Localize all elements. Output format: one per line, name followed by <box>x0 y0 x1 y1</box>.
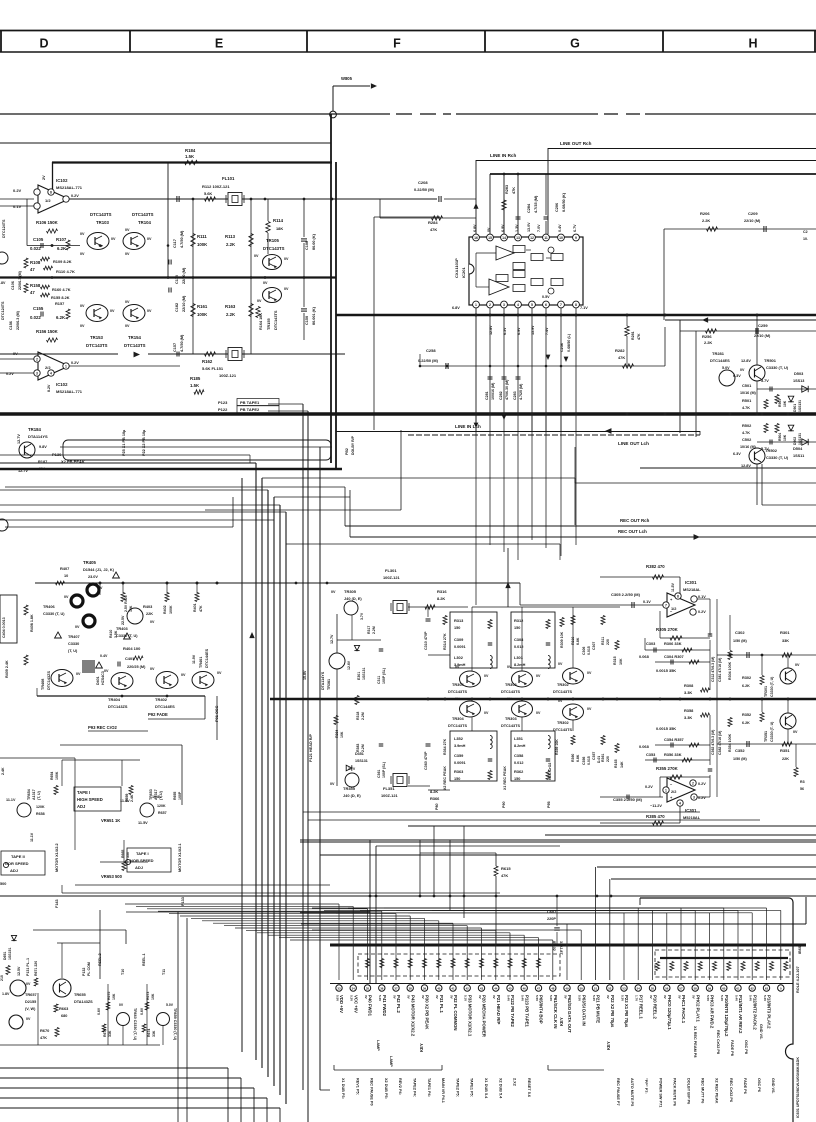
transistor TR401 <box>192 648 222 688</box>
svg-text:0V: 0V <box>536 711 541 715</box>
svg-text:T10: T10 <box>121 969 125 975</box>
resistor R384 <box>334 716 344 739</box>
svg-text:DTC143TS: DTC143TS <box>132 212 154 217</box>
svg-text:C307: C307 <box>592 642 596 650</box>
wire P92 FADE <box>148 696 205 719</box>
resistor R402 <box>163 593 173 615</box>
svg-text:R318: R318 <box>356 712 360 720</box>
svg-text:R383: R383 <box>356 744 360 752</box>
svg-text:TR302: TR302 <box>557 720 570 725</box>
capacitor C502 <box>740 437 816 451</box>
svg-text:W805: W805 <box>341 76 353 81</box>
transistor TR406 <box>43 595 83 616</box>
svg-text:C352: C352 <box>735 748 745 753</box>
svg-text:C282: C282 <box>499 391 503 400</box>
svg-text:R163: R163 <box>225 304 236 309</box>
svg-text:0V: 0V <box>125 228 130 232</box>
transistor TR104 <box>123 212 154 256</box>
capacitor C118 <box>169 260 186 285</box>
svg-text:C360 470P: C360 470P <box>424 751 428 770</box>
svg-text:REC OUT Rch: REC OUT Rch <box>620 518 650 523</box>
svg-text:C283: C283 <box>513 391 517 400</box>
svg-text:0V: 0V <box>125 324 130 328</box>
capacitor C307 <box>592 642 596 650</box>
svg-text:1.8V: 1.8V <box>2 992 10 996</box>
svg-text:1/50 (M): 1/50 (M) <box>733 757 748 761</box>
svg-text:REC PAUSE P0: REC PAUSE P0 <box>370 1078 374 1106</box>
svg-text:10.: 10. <box>803 237 808 241</box>
wire P91 OSC <box>214 696 219 740</box>
svg-text:47K: 47K <box>501 873 508 878</box>
svg-text:C150: C150 <box>305 316 309 325</box>
svg-text:IC102: IC102 <box>56 382 68 387</box>
svg-text:5.6K: 5.6K <box>204 191 212 196</box>
svg-text:R111: R111 <box>197 234 207 239</box>
svg-text:IC301: IC301 <box>685 580 697 585</box>
wire heavy vertical bus x331 <box>331 114 336 469</box>
svg-text:DOLBY B/P P6: DOLBY B/P P6 <box>687 1078 691 1104</box>
svg-text:2.2K: 2.2K <box>226 312 236 317</box>
transistor TR353 <box>501 697 541 728</box>
wire LINE IN Lch <box>336 424 700 434</box>
svg-text:0.4V: 0.4V <box>558 224 562 232</box>
transistor TR655 <box>53 979 93 1004</box>
svg-text:DTC143TS: DTC143TS <box>273 310 278 330</box>
svg-text:3.7V: 3.7V <box>360 612 364 620</box>
svg-text:1.5K: 1.5K <box>190 383 200 388</box>
svg-text:10K: 10K <box>783 434 787 441</box>
resistor R155 <box>41 293 70 300</box>
connector pin row line <box>330 983 793 985</box>
svg-text:P10/INT0 120μ/70μ.2: P10/INT0 120μ/70μ.2 <box>724 995 729 1037</box>
svg-text:11.5V: 11.5V <box>671 582 675 592</box>
svg-text:D351: D351 <box>355 752 364 756</box>
transistor TR653 <box>140 789 182 817</box>
svg-text:R366: R366 <box>430 796 440 801</box>
svg-text:REC OUT Lch: REC OUT Lch <box>618 529 647 534</box>
svg-text:R409 2.4K: R409 2.4K <box>5 660 9 678</box>
wire LINE IN Rch <box>473 153 816 234</box>
transistor TR184 <box>17 427 85 473</box>
label 0.0015 35K <box>656 668 676 673</box>
wire main top bus y114 dashed <box>0 113 816 115</box>
transistor TR501 <box>733 315 789 383</box>
wire right block frame <box>575 447 816 505</box>
svg-text:45: 45 <box>508 986 512 990</box>
svg-text:C3330 (T, U): C3330 (T, U) <box>770 676 774 697</box>
svg-text:DTC143TS: DTC143TS <box>90 212 112 217</box>
label T10 <box>121 969 125 975</box>
svg-text:0V: 0V <box>263 281 268 285</box>
svg-text:0V: 0V <box>284 287 289 291</box>
wire long verticals mid-left <box>303 447 760 1090</box>
svg-text:J40 (D, E): J40 (D, E) <box>344 596 362 601</box>
svg-text:500: 500 <box>0 882 6 886</box>
svg-text:R112 100Z-121: R112 100Z-121 <box>202 184 230 189</box>
svg-text:2.2M: 2.2M <box>361 744 365 752</box>
svg-text:5.5V: 5.5V <box>706 995 710 1001</box>
svg-text:10K: 10K <box>619 658 623 665</box>
svg-text:2.4K: 2.4K <box>130 794 134 802</box>
IC201 pin voltage labels <box>452 222 588 352</box>
svg-text:0V: 0V <box>435 995 439 999</box>
capacitor C106 <box>11 270 22 290</box>
label X2 REC PEAK <box>443 766 447 790</box>
svg-text:35: 35 <box>366 986 370 990</box>
svg-text:C259: C259 <box>758 323 768 328</box>
label REC CrO2 <box>548 763 552 780</box>
svg-text:0V: 0V <box>26 1017 31 1021</box>
label DTC124TS left edge upper <box>2 219 6 238</box>
svg-text:0V: 0V <box>80 324 85 328</box>
svg-text:IC102: IC102 <box>56 178 68 183</box>
svg-text:REV1 P5:: REV1 P5: <box>355 1078 359 1095</box>
svg-text:C155: C155 <box>33 306 44 311</box>
capacitor C404 box <box>0 595 17 643</box>
svg-text:R185: R185 <box>190 376 201 381</box>
resistor network right dashed box <box>655 950 790 977</box>
svg-text:D503: D503 <box>794 371 804 376</box>
svg-text:59: 59 <box>708 986 712 990</box>
svg-text:2/2: 2/2 <box>45 365 51 370</box>
svg-text:R314 27K: R314 27K <box>443 633 447 650</box>
svg-text:TR404: TR404 <box>108 697 121 702</box>
wire REC OUT Rch <box>345 487 816 526</box>
svg-text:100K: 100K <box>55 771 59 780</box>
svg-text:TR407: TR407 <box>68 634 80 639</box>
svg-text:R658: R658 <box>36 812 45 816</box>
svg-text:R311: R311 <box>601 637 605 645</box>
resistor R385 <box>600 806 680 825</box>
wire REC bottom rails <box>300 826 816 840</box>
svg-text:0V: 0V <box>663 995 667 999</box>
svg-text:C117: C117 <box>173 239 177 248</box>
svg-text:C206: C206 <box>555 203 559 212</box>
connector upper right labels <box>693 1024 763 1057</box>
svg-text:DTC143TS: DTC143TS <box>124 343 146 348</box>
wire TR281 <box>710 351 745 386</box>
svg-text:C381 47/16 (M): C381 47/16 (M) <box>718 658 722 682</box>
svg-text:0V: 0V <box>104 669 109 673</box>
transistor TR154 <box>123 300 152 348</box>
svg-text:C106: C106 <box>11 281 15 290</box>
resistor R360 <box>571 736 580 763</box>
svg-text:5.5V: 5.5V <box>335 995 339 1001</box>
svg-text:P130: P130 <box>52 452 62 457</box>
svg-text:8.2K: 8.2K <box>437 596 445 601</box>
svg-text:R403: R403 <box>143 604 153 609</box>
resistor R314 <box>443 616 447 651</box>
svg-text:"PP" P7:: "PP" P7: <box>644 1078 648 1094</box>
diode D502 <box>788 425 802 445</box>
capacitor C361 <box>377 744 386 778</box>
svg-text:8.2mH: 8.2mH <box>514 663 526 667</box>
wire heavy bus y315 <box>336 314 816 316</box>
svg-text:52: 52 <box>608 986 612 990</box>
svg-text:13.0V: 13.0V <box>527 222 531 232</box>
svg-text:33K: 33K <box>108 1030 112 1037</box>
svg-text:8.2V: 8.2V <box>47 384 51 392</box>
svg-text:0V: 0V <box>507 665 512 669</box>
svg-text:4: 4 <box>679 802 681 806</box>
svg-text:TR501: TR501 <box>764 358 777 363</box>
svg-text:5.6V: 5.6V <box>549 995 553 1001</box>
svg-text:R501: R501 <box>742 398 752 403</box>
svg-text:33: 33 <box>337 986 341 990</box>
wire P93 REC CrO2 <box>88 719 148 731</box>
svg-text:48: 48 <box>551 986 555 990</box>
svg-text:.8V: .8V <box>0 281 6 285</box>
svg-text:100K: 100K <box>197 312 208 317</box>
svg-text:FADE P8: FADE P8 <box>730 1040 734 1056</box>
svg-text:R158: R158 <box>30 283 41 288</box>
svg-text:E301: E301 <box>357 672 361 680</box>
svg-text:5.2V: 5.2V <box>592 995 596 1001</box>
resistor R354 <box>728 718 732 753</box>
svg-text:2.2K: 2.2K <box>704 340 712 345</box>
svg-text:37: 37 <box>394 986 398 990</box>
svg-text:0V: 0V <box>740 368 745 372</box>
capacitor C155 <box>30 306 44 320</box>
capacitor C501 <box>740 381 816 413</box>
svg-text:0V: 0V <box>181 673 186 677</box>
svg-text:POWER SW P71: POWER SW P71 <box>658 1078 662 1107</box>
svg-text:0.22/50 (M): 0.22/50 (M) <box>418 358 439 363</box>
svg-text:R401: R401 <box>193 603 197 612</box>
svg-text:R302: R302 <box>742 676 751 680</box>
capacitor C401 <box>118 656 146 669</box>
svg-text:L351: L351 <box>514 736 524 741</box>
svg-text:22/10 (M): 22/10 (M) <box>182 267 186 284</box>
svg-text:TAPE II: TAPE II <box>11 854 25 859</box>
svg-text:A1317: A1317 <box>32 789 36 800</box>
box TAPE I HIGH SPEED ADJ <box>74 787 121 811</box>
svg-text:1.7V: 1.7V <box>635 995 639 1001</box>
svg-text:4.7/25 (M): 4.7/25 (M) <box>519 383 523 400</box>
svg-text:KEY: KEY <box>419 1043 424 1052</box>
svg-text:120K: 120K <box>36 805 45 809</box>
svg-text:IC201: IC201 <box>461 267 466 278</box>
label DTC124TS left edge lower <box>1 301 5 320</box>
resistor R106 <box>36 220 59 233</box>
transistor TR352 <box>553 699 592 732</box>
svg-text:R305 270K: R305 270K <box>656 627 679 632</box>
svg-text:6.2K: 6.2K <box>742 684 750 688</box>
capacitor C362 C382 labels <box>708 730 722 771</box>
svg-text:6.3V: 6.3V <box>733 452 741 456</box>
resistor R405 <box>121 593 133 613</box>
svg-text:5.4V: 5.4V <box>734 995 738 1001</box>
resistor R308 <box>684 683 710 695</box>
svg-text:5: 5 <box>531 303 533 307</box>
resistor R353 <box>794 744 805 791</box>
svg-text:R615: R615 <box>501 866 511 871</box>
capacitor C281 <box>485 377 495 400</box>
svg-text:R364 27K: R364 27K <box>443 738 447 755</box>
label IC301 lower <box>683 808 701 820</box>
svg-text:R665: R665 <box>121 850 125 858</box>
wire IC201 top supply bus <box>490 173 816 234</box>
wire bottom-left rails <box>0 910 370 1122</box>
svg-text:R360: R360 <box>571 754 575 762</box>
resistor R315 <box>613 641 623 666</box>
IC201 pins top <box>473 234 580 241</box>
svg-text:4.7K: 4.7K <box>742 406 750 410</box>
svg-text:OSC P6: OSC P6 <box>757 1078 761 1092</box>
transistor TR153 <box>80 304 115 348</box>
svg-text:MS218AL: MS218AL <box>683 587 701 592</box>
IC U601 labels <box>796 944 802 1118</box>
svg-text:X1 DUB 5.4: X1 DUB 5.4 <box>484 1078 488 1099</box>
svg-text:TR155: TR155 <box>266 317 271 330</box>
svg-text:0V: 0V <box>484 711 489 715</box>
svg-text:R504: R504 <box>778 433 782 441</box>
resistor R305 <box>656 611 710 640</box>
svg-text:TR303: TR303 <box>505 682 518 687</box>
svg-text:39: 39 <box>423 986 427 990</box>
svg-text:54: 54 <box>637 986 641 990</box>
resistor R113 <box>225 199 253 277</box>
svg-text:0V: 0V <box>111 237 116 241</box>
resistor R502 <box>742 423 768 435</box>
transistor TR304 <box>448 665 489 694</box>
svg-text:10K: 10K <box>129 605 133 612</box>
transistor TR305 <box>331 589 364 620</box>
connector pin labels <box>335 995 771 1038</box>
svg-text:TR408: TR408 <box>41 679 45 690</box>
svg-text:47K: 47K <box>618 355 625 360</box>
svg-text:TAPE1 P5:: TAPE1 P5: <box>470 1078 474 1097</box>
svg-text:47: 47 <box>30 290 35 295</box>
svg-text:C182: C182 <box>175 303 179 312</box>
svg-text:KEY: KEY <box>606 1041 611 1050</box>
wire right lower horizontals <box>300 826 816 918</box>
wire PB Rch signal row y199 <box>69 198 437 201</box>
svg-text:0.1V: 0.1V <box>698 595 706 599</box>
svg-text:R355 270K: R355 270K <box>656 766 679 771</box>
svg-text:D502: D502 <box>793 437 797 445</box>
svg-text:P80: P80 <box>435 803 439 810</box>
svg-text:FADE P6: FADE P6 <box>743 1078 747 1094</box>
svg-text:150: 150 <box>514 777 520 781</box>
resistor R504 <box>775 424 787 442</box>
svg-text:PL COM: PL COM <box>87 962 91 976</box>
svg-text:TR502: TR502 <box>765 448 778 453</box>
svg-text:5.6K FL151: 5.6K FL151 <box>202 366 224 371</box>
svg-text:150: 150 <box>514 626 520 630</box>
svg-text:R281: R281 <box>631 331 635 340</box>
svg-text:0.68/50 (K): 0.68/50 (K) <box>562 192 566 212</box>
svg-text:2.2K: 2.2K <box>226 242 236 247</box>
svg-text:100Z-121: 100Z-121 <box>381 793 398 798</box>
svg-text:0V: 0V <box>421 995 425 999</box>
svg-text:C353: C353 <box>646 752 656 757</box>
wire osc emitter rail y696 <box>37 688 205 697</box>
svg-text:56: 56 <box>800 787 804 791</box>
label P90 <box>502 801 506 808</box>
svg-text:0V: 0V <box>257 299 262 303</box>
svg-text:80.00 (K): 80.00 (K) <box>312 233 316 250</box>
transistor TR302 <box>553 662 592 694</box>
svg-text:0.68/50 (L): 0.68/50 (L) <box>567 333 571 352</box>
resistor R659 <box>125 786 134 803</box>
IC U201 CXA1101P <box>454 237 583 305</box>
svg-text:56: 56 <box>665 986 669 990</box>
svg-text:100K: 100K <box>169 605 173 614</box>
resistor R185 <box>190 376 204 394</box>
IC201 bottom pin wires <box>474 308 576 432</box>
svg-text:5.5V: 5.5V <box>578 995 582 1001</box>
wire osc rail y583 <box>35 430 520 605</box>
capacitor C157 <box>173 334 184 357</box>
svg-text:0V: 0V <box>75 625 80 629</box>
svg-text:TR403: TR403 <box>116 626 129 631</box>
svg-text:FL101: FL101 <box>222 176 235 181</box>
op-amp IC102 1/2 <box>0 175 83 213</box>
svg-text:22/10 (M): 22/10 (M) <box>182 295 186 312</box>
svg-text:C157: C157 <box>173 343 177 352</box>
capacitor C303 resistor R306 <box>645 638 710 653</box>
svg-text:C3330 (T, U): C3330 (T, U) <box>766 365 789 370</box>
svg-text:R156 150K: R156 150K <box>36 329 59 334</box>
wire upper mid frame <box>374 199 440 430</box>
svg-text:3: 3 <box>36 372 38 376</box>
resistor R109 <box>41 257 72 264</box>
op-amp IC301 2/2 <box>645 778 706 806</box>
diode D651 <box>3 935 17 960</box>
wire IC201 to REC verticals <box>476 415 576 605</box>
wire top rail left block <box>52 162 332 277</box>
svg-text:0V: 0V <box>26 982 31 986</box>
svg-text:R359 10K: R359 10K <box>555 739 559 755</box>
svg-text:12.7V: 12.7V <box>17 434 21 444</box>
svg-text:R663: R663 <box>59 1006 69 1011</box>
svg-text:TR305: TR305 <box>344 589 357 594</box>
svg-text:0V: 0V <box>487 227 491 232</box>
svg-text:C3330 (T, U): C3330 (T, U) <box>766 455 789 460</box>
svg-text:M5218AL: M5218AL <box>683 815 701 820</box>
svg-text:DTC143TS: DTC143TS <box>501 724 520 728</box>
svg-text:R502: R502 <box>742 423 752 428</box>
svg-text:47: 47 <box>537 986 541 990</box>
svg-text:220/6.3 (M): 220/6.3 (M) <box>16 310 20 330</box>
resistor R401 <box>193 593 203 613</box>
svg-text:DTC124TS: DTC124TS <box>2 219 6 238</box>
svg-text:KEY: KEY <box>559 1017 564 1026</box>
svg-text:(V, W): (V, W) <box>25 1007 36 1011</box>
capacitor C206 <box>544 174 567 234</box>
wire mid band extra <box>0 455 560 560</box>
resistor R158 <box>24 283 41 295</box>
svg-text:0V: 0V <box>606 995 610 999</box>
svg-text:11.1V: 11.1V <box>6 798 16 802</box>
wire connector comb left group <box>125 904 581 980</box>
svg-text:DTC143TS: DTC143TS <box>501 690 520 694</box>
svg-text:DTC143TS: DTC143TS <box>448 724 467 728</box>
capacitor C150 <box>301 277 316 340</box>
label TAPE I NOR SPEED ADJ <box>125 851 153 870</box>
svg-text:53: 53 <box>622 986 626 990</box>
resistor R615 <box>420 853 511 945</box>
svg-text:5.4V: 5.4V <box>749 995 753 1001</box>
svg-text:332J-8T: 332J-8T <box>559 941 563 955</box>
svg-text:REC MUTT P6: REC MUTT P6 <box>701 1078 705 1103</box>
svg-text:TR659 C3330 (T, U): TR659 C3330 (T, U) <box>173 1008 177 1041</box>
diode D504 <box>793 439 808 458</box>
resistor R161 <box>191 277 208 354</box>
svg-text:P10 REEL.2: P10 REEL.2 <box>653 995 658 1019</box>
svg-text:0V: 0V <box>649 995 653 999</box>
